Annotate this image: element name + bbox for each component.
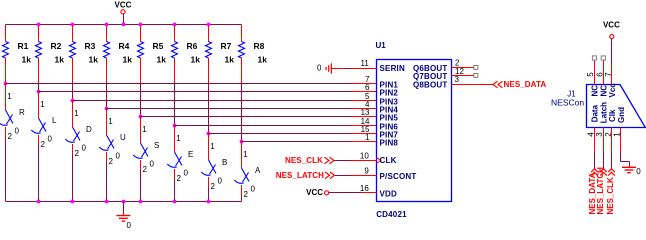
- port NES_DATA (down): [591, 169, 598, 176]
- svg-text:CLK: CLK: [380, 156, 397, 165]
- svg-text:2: 2: [75, 149, 80, 158]
- svg-text:3: 3: [455, 75, 460, 84]
- node tap col3: [71, 99, 75, 103]
- ground at SERIN (net 0): [317, 63, 331, 73]
- svg-text:2: 2: [8, 132, 13, 141]
- svg-text:1: 1: [243, 150, 248, 159]
- J1 pin 5 (n.c.): [594, 60, 596, 85]
- junction bottom bus col2: [37, 200, 41, 204]
- wire col5 resistor to tap: [140, 83, 142, 117]
- ground (net 0) below switch bus: [116, 202, 131, 230]
- wire tap col7 to U1 PIN7: [209, 133, 352, 135]
- wire NES_LATCH to U1 pin 9: [335, 175, 351, 177]
- wire ground to SERIN pin 11: [332, 68, 344, 70]
- wire switch U to ground bus: [106, 163, 108, 202]
- svg-text:1: 1: [613, 132, 622, 137]
- junction bus col2: [37, 23, 41, 27]
- svg-text:Gnd: Gnd: [617, 107, 626, 123]
- junction bottom bus col4: [105, 200, 109, 204]
- resistor R7 1k: [206, 25, 235, 84]
- svg-text:PIN5: PIN5: [380, 113, 399, 122]
- svg-text:NES_CLK: NES_CLK: [606, 177, 615, 215]
- svg-text:NC: NC: [591, 85, 600, 97]
- pin 2 Q6BOUT stub (n.c.): [452, 67, 475, 69]
- svg-text:R4: R4: [119, 41, 130, 51]
- svg-text:U: U: [120, 133, 126, 142]
- switch R (button): [0, 84, 25, 142]
- svg-text:6: 6: [595, 72, 604, 77]
- svg-text:0: 0: [150, 160, 155, 169]
- node tap col5: [139, 115, 143, 119]
- U1 pin names left: [380, 64, 417, 199]
- svg-text:Latch: Latch: [599, 102, 608, 123]
- node tap col2: [37, 90, 41, 94]
- switch B (button): [201, 134, 227, 192]
- svg-text:PIN8: PIN8: [380, 138, 399, 147]
- svg-text:R6: R6: [187, 41, 198, 51]
- wire col7 resistor to tap: [208, 83, 210, 134]
- svg-text:Vcc: Vcc: [608, 83, 617, 98]
- svg-text:2: 2: [244, 190, 249, 199]
- svg-text:7: 7: [604, 72, 613, 77]
- svg-text:R: R: [19, 108, 25, 117]
- resistor R8 1k: [239, 25, 268, 84]
- svg-text:1k: 1k: [55, 55, 65, 65]
- node tap col4: [105, 107, 109, 111]
- switch L (button): [31, 92, 57, 150]
- svg-text:VDD: VDD: [380, 190, 398, 199]
- svg-text:5: 5: [586, 72, 595, 77]
- port NES_DATA: [493, 81, 503, 88]
- ground (net 0) at J1: [622, 167, 641, 176]
- junction bus col5: [139, 23, 143, 27]
- svg-text:0: 0: [184, 169, 189, 178]
- svg-text:9: 9: [364, 166, 369, 175]
- svg-text:2: 2: [177, 174, 182, 183]
- svg-text:NES_CLK: NES_CLK: [285, 156, 323, 165]
- svg-text:Data: Data: [591, 104, 600, 122]
- wire switch A to ground bus: [241, 196, 243, 202]
- svg-text:B: B: [222, 158, 227, 167]
- svg-text:0: 0: [636, 167, 641, 176]
- svg-text:1k: 1k: [22, 55, 32, 65]
- svg-text:P/SCONT: P/SCONT: [380, 172, 417, 181]
- svg-text:NES_LATCH: NES_LATCH: [596, 167, 605, 215]
- wire NES_CLK to U1 pin 10: [335, 160, 352, 162]
- svg-text:1: 1: [176, 134, 181, 143]
- wire bottom ground bus: [6, 201, 242, 203]
- svg-text:1: 1: [210, 142, 215, 151]
- svg-text:Clk: Clk: [608, 109, 617, 122]
- svg-text:NES_DATA: NES_DATA: [504, 80, 547, 89]
- switch S (button): [133, 117, 159, 175]
- svg-text:0: 0: [15, 127, 20, 136]
- svg-text:SERIN: SERIN: [380, 64, 405, 73]
- svg-text:NC: NC: [599, 85, 608, 97]
- svg-text:CD4021: CD4021: [376, 210, 407, 219]
- wire tap col2 to U1 PIN2: [39, 91, 352, 93]
- svg-text:Q8BOUT: Q8BOUT: [413, 80, 448, 89]
- switch E (button): [167, 126, 193, 184]
- J1 pin labels inside: [591, 83, 626, 124]
- switch D (button): [65, 101, 92, 159]
- svg-text:PIN2: PIN2: [380, 88, 399, 97]
- port NES_CLK (down): [608, 169, 615, 176]
- svg-text:1: 1: [142, 125, 147, 134]
- svg-text:0: 0: [127, 221, 132, 230]
- wire col4 resistor to tap: [106, 83, 108, 109]
- svg-text:NESCon: NESCon: [551, 97, 584, 107]
- resistor R6 1k: [172, 25, 201, 84]
- wire switch R to ground bus: [5, 138, 7, 202]
- junction bus col7: [207, 23, 211, 27]
- svg-text:0: 0: [218, 177, 223, 186]
- J1 pin 1 wire to ground: [620, 128, 622, 151]
- wire col2 resistor to tap: [38, 83, 40, 92]
- wire switch D to ground bus: [72, 155, 74, 202]
- svg-text:2: 2: [109, 157, 114, 166]
- wire tap col1 to U1 PIN1: [6, 83, 352, 85]
- svg-text:1k: 1k: [191, 55, 201, 65]
- resistor R5 1k: [138, 25, 167, 84]
- svg-text:16: 16: [360, 184, 369, 193]
- svg-text:U1: U1: [376, 41, 387, 50]
- clock marker: [377, 158, 381, 164]
- wire VCC to J1 pin 7: [611, 39, 613, 64]
- pin 12 Q7BOUT stub (n.c.): [452, 75, 475, 77]
- svg-text:2: 2: [41, 140, 46, 149]
- svg-text:R1: R1: [18, 41, 29, 51]
- svg-text:1: 1: [40, 100, 45, 109]
- wire tap col6 to U1 PIN6: [175, 125, 352, 127]
- svg-text:R2: R2: [51, 41, 62, 51]
- svg-text:2: 2: [211, 182, 216, 191]
- svg-text:11: 11: [360, 59, 369, 68]
- svg-text:10: 10: [360, 152, 369, 161]
- svg-text:R3: R3: [85, 41, 96, 51]
- svg-text:1: 1: [7, 92, 12, 101]
- wire col6 resistor to tap: [174, 83, 176, 126]
- wire tap col5 to U1 PIN5: [141, 116, 352, 118]
- junction bus col4: [105, 23, 109, 27]
- wire switch L to ground bus: [38, 146, 40, 202]
- svg-text:1: 1: [74, 109, 79, 118]
- wire VCC to bus: [123, 14, 125, 25]
- svg-text:0: 0: [251, 185, 256, 194]
- svg-text:A: A: [255, 166, 261, 175]
- J1 pin 2 wire: [611, 128, 613, 153]
- svg-text:1: 1: [365, 133, 370, 142]
- svg-text:NES_LATCH: NES_LATCH: [276, 171, 324, 180]
- resistor R2 1k: [36, 25, 65, 84]
- svg-text:VCC: VCC: [115, 1, 132, 10]
- svg-text:1k: 1k: [157, 55, 167, 65]
- svg-text:VCC: VCC: [306, 188, 323, 197]
- connector J1 NESCon body: [587, 85, 646, 128]
- svg-text:S: S: [154, 141, 159, 150]
- svg-text:6: 6: [365, 83, 370, 92]
- svg-text:2: 2: [604, 132, 613, 137]
- wire switch E to ground bus: [174, 180, 176, 202]
- J1 pin 3 wire: [603, 128, 605, 153]
- junction bus col6: [173, 23, 177, 27]
- port NES_LATCH (down): [600, 169, 607, 176]
- node tap col7: [207, 132, 211, 136]
- svg-text:0: 0: [82, 144, 87, 153]
- node tap col8: [240, 140, 244, 144]
- junction bottom bus col5: [139, 200, 143, 204]
- svg-text:R8: R8: [254, 41, 265, 51]
- svg-text:R7: R7: [221, 41, 232, 51]
- svg-text:1k: 1k: [258, 55, 268, 65]
- switch U (button): [99, 109, 126, 167]
- svg-text:4: 4: [586, 132, 595, 137]
- svg-text:1k: 1k: [89, 55, 99, 65]
- svg-text:1k: 1k: [123, 55, 133, 65]
- resistor R1 1k: [3, 25, 32, 84]
- wire switch B to ground bus: [208, 188, 210, 202]
- svg-text:13: 13: [361, 108, 370, 117]
- svg-text:2: 2: [143, 165, 148, 174]
- svg-text:1: 1: [108, 117, 113, 126]
- node tap col1: [4, 82, 8, 86]
- pin 3 Q8BOUT wire: [452, 84, 492, 86]
- svg-text:0: 0: [48, 135, 53, 144]
- switch A (button): [234, 142, 261, 200]
- junction bottom bus col6: [173, 200, 177, 204]
- junction bottom bus col7: [207, 200, 211, 204]
- wire VCC to U1 pin 16: [329, 192, 362, 194]
- svg-text:0: 0: [317, 63, 322, 72]
- U1 pin names right: [413, 64, 448, 90]
- junction bottom bus col3: [71, 200, 75, 204]
- svg-text:L: L: [52, 116, 57, 125]
- svg-text:E: E: [188, 150, 193, 159]
- junction bus col3: [71, 23, 75, 27]
- wire tap col3 to U1 PIN3: [73, 100, 352, 102]
- resistor R4 1k: [104, 25, 133, 84]
- J1 pin 6 (n.c.): [603, 60, 605, 85]
- svg-text:D: D: [86, 125, 92, 134]
- wire col8 resistor to tap: [241, 83, 243, 142]
- svg-text:VCC: VCC: [603, 20, 620, 29]
- J1 pin 4 wire: [594, 128, 596, 153]
- op IC U1 CD4021 body: [377, 60, 452, 202]
- svg-text:R5: R5: [153, 41, 164, 51]
- wire col3 resistor to tap: [72, 83, 74, 101]
- svg-text:3: 3: [595, 132, 604, 137]
- junction VCC-bus: [122, 23, 126, 27]
- wire switch S to ground bus: [140, 171, 142, 202]
- resistor R3 1k: [70, 25, 99, 84]
- wire top resistor bus: [6, 24, 242, 26]
- wire tap col8 to U1 PIN8: [242, 141, 352, 143]
- svg-text:1k: 1k: [225, 55, 235, 65]
- node tap col6: [173, 124, 177, 128]
- junction ground tap: [122, 200, 126, 204]
- wire tap col4 to U1 PIN4: [107, 108, 352, 110]
- svg-text:0: 0: [116, 152, 121, 161]
